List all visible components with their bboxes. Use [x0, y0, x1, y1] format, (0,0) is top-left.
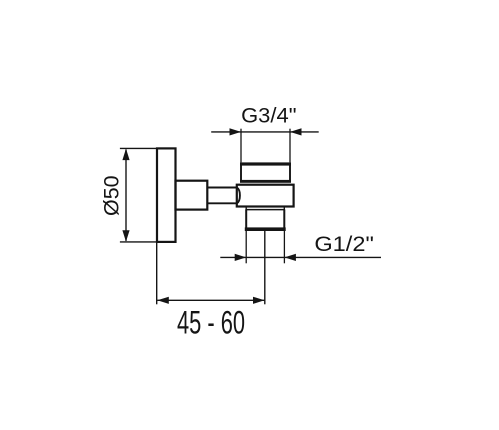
neck bottom line: [207, 202, 237, 204]
G1/2 right extension line: [283, 231, 285, 263]
top nut thick top band: [240, 162, 291, 165]
neck top line: [207, 187, 237, 189]
dimension G1/2: dimension line: [220, 256, 381, 258]
Ø50 bottom extension line: [120, 241, 157, 243]
top nut G3/4: left side: [240, 164, 242, 180]
Ø50 top arrow: [122, 149, 129, 161]
Ø50 top extension line: [120, 147, 157, 149]
Ø50 bottom arrow: [122, 230, 129, 242]
45-60 dimension line: [157, 299, 264, 301]
top nut G3/4: right side: [289, 164, 291, 180]
bottom nut right side: [283, 210, 285, 229]
45-60 right arrow: [253, 297, 265, 304]
bottom nut G1/2: corner tick left: [245, 207, 247, 210]
svg-text:45 - 60: 45 - 60: [177, 305, 245, 341]
G3/4 right arrow: [290, 128, 302, 135]
bottom nut thick bottom band: [245, 227, 286, 231]
dimension Ø50: dimension line: [125, 150, 127, 241]
svg-text:G1/2": G1/2": [314, 233, 374, 256]
G1/2 left extension line: [245, 231, 247, 263]
45-60 left arrow: [157, 297, 169, 304]
G1/2 left arrow: [235, 254, 247, 261]
G3/4 left arrow: [230, 128, 242, 135]
bottom nut G1/2: corner tick right: [283, 207, 285, 210]
svg-text:G3/4": G3/4": [241, 104, 296, 127]
dimension G3/4: dimension line: [211, 131, 319, 133]
G3/4 left extension line: [240, 129, 242, 163]
G3/4 right extension line: [289, 129, 291, 163]
valve body rectangle: [237, 185, 294, 207]
G1/2 right arrow: [284, 254, 296, 261]
neck end arc inside body: [237, 188, 240, 204]
dimension 45-60: wall reference line: [156, 243, 158, 304]
wall flange (side view rectangle): [157, 148, 176, 242]
outlet center line: [264, 231, 266, 304]
svg-text:Ø50: Ø50: [101, 175, 124, 216]
arm block between flange and valve body: [176, 181, 208, 210]
washer band under top nut: [240, 180, 291, 183]
bottom nut top line: [245, 209, 285, 211]
bottom nut left side: [245, 210, 247, 229]
